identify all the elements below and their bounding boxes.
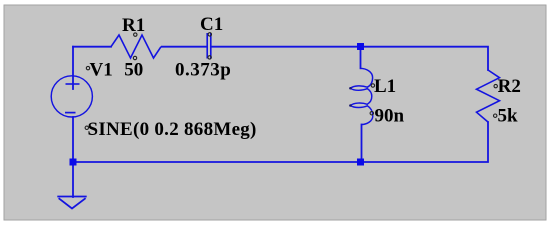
svg-text:0.373p: 0.373p <box>175 60 231 81</box>
svg-text:SINE(0 0.2 868Meg): SINE(0 0.2 868Meg) <box>88 119 257 140</box>
node junction L1-top <box>357 43 364 50</box>
svg-text:90n: 90n <box>375 106 405 127</box>
svg-text:5k: 5k <box>498 106 519 127</box>
voltage source V1 <box>51 60 256 141</box>
wire top right segment (C1 right plate to R2 top corner) <box>212 47 489 70</box>
wire V1 bottom lead <box>72 117 74 162</box>
node junction L1-bottom <box>357 159 364 166</box>
node junction V1-bottom <box>70 159 77 166</box>
wire V1 top lead <box>72 47 74 89</box>
capacitor C1 <box>175 14 231 81</box>
svg-text:L1: L1 <box>374 76 396 97</box>
svg-text:C1: C1 <box>200 14 223 35</box>
svg-text:50: 50 <box>124 60 143 81</box>
resistor R1 <box>111 15 161 81</box>
wire top left segment <box>73 46 111 48</box>
wire ground lead <box>72 162 74 197</box>
wire L1 top lead <box>360 47 362 69</box>
wire top middle segment (R1 right lead to C1 left plate) <box>161 46 207 48</box>
svg-text:V1: V1 <box>90 60 113 81</box>
svg-text:R2: R2 <box>498 76 521 97</box>
resistor R2 <box>477 70 521 127</box>
inductor L1 <box>349 68 404 126</box>
svg-text:R1: R1 <box>122 15 145 36</box>
ground <box>57 197 86 209</box>
wire L1 bottom lead <box>361 125 363 163</box>
wire bottom <box>73 122 488 162</box>
